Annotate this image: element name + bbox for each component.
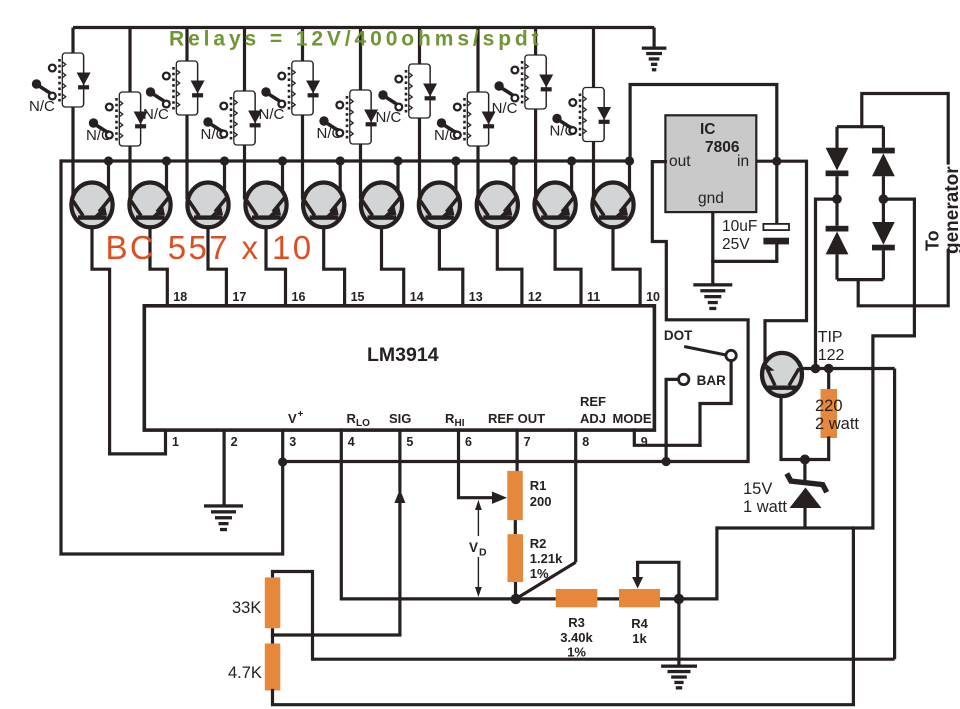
wire relay K1 coil bottom to Q1 collector bbox=[71, 106, 74, 200]
node Q4 emitter junction bbox=[278, 156, 287, 165]
wire D2 to bridge bottom bbox=[835, 254, 838, 279]
wire R4 out bbox=[660, 597, 679, 600]
node Q6 emitter junction bbox=[393, 156, 402, 165]
relay K1 switch lever bbox=[38, 85, 51, 93]
relay K5 coil body bbox=[292, 61, 313, 115]
relay K3 contact N/C bbox=[163, 101, 170, 108]
svg-text:200: 200 bbox=[530, 494, 552, 509]
svg-text:1: 1 bbox=[172, 435, 179, 449]
svg-text:10: 10 bbox=[646, 290, 660, 304]
svg-text:N/C: N/C bbox=[86, 127, 112, 144]
svg-text:4.7K: 4.7K bbox=[228, 664, 262, 682]
wire bridge left branch top bbox=[835, 127, 838, 149]
svg-text:V: V bbox=[288, 411, 297, 426]
wire TIP122 base bbox=[781, 396, 805, 460]
wire divider mid bbox=[271, 628, 274, 643]
svg-text:1%: 1% bbox=[567, 645, 586, 660]
relay K6 contact N/O bbox=[336, 102, 343, 109]
wire V+ rail horizontal bbox=[283, 460, 748, 463]
ground R4 bbox=[661, 665, 697, 668]
relay K4 coil body bbox=[234, 91, 255, 145]
svg-text:6: 6 bbox=[465, 435, 472, 449]
relay K5 switch lever bbox=[267, 93, 280, 101]
relay K7 contact N/C bbox=[395, 104, 402, 111]
svg-text:IC: IC bbox=[700, 121, 716, 138]
svg-text:REF OUT: REF OUT bbox=[488, 411, 545, 426]
wire relay K1 coil top bbox=[71, 28, 74, 56]
relay K9 switch lever bbox=[500, 87, 512, 95]
svg-text:12: 12 bbox=[528, 290, 542, 304]
diode relay K10 flyback bbox=[603, 90, 605, 140]
op-amp U1 LM3914 body bbox=[144, 306, 654, 430]
diode D1 bbox=[826, 148, 849, 171]
diode relay K1 flyback bbox=[83, 55, 85, 105]
wire Q7 emitter stub bbox=[454, 161, 457, 193]
svg-text:N/C: N/C bbox=[259, 106, 285, 123]
wire Q2 base to pin 17 bbox=[150, 227, 167, 307]
svg-text:TIP: TIP bbox=[818, 329, 843, 346]
resistor 4.7K bbox=[265, 644, 281, 691]
wire R 220 top bbox=[827, 369, 830, 391]
svg-text:3.40k: 3.40k bbox=[560, 630, 593, 645]
wire relay K8 coil bottom to Q8 collector bbox=[476, 145, 479, 200]
wire Q1 base to pin 1 bbox=[92, 227, 166, 454]
svg-text:10uF: 10uF bbox=[722, 218, 757, 235]
relay K8 switch lever bbox=[443, 124, 456, 132]
relay K6 coil body bbox=[350, 90, 371, 144]
wire relay K4 coil top bbox=[243, 28, 246, 94]
wire relay K5 coil top bbox=[301, 28, 304, 64]
arrow SIG input bbox=[394, 489, 405, 503]
diode relay K6 flyback bbox=[370, 92, 372, 142]
node 7806 in junction bbox=[772, 157, 781, 166]
wire R4 junction to ground bbox=[677, 599, 680, 666]
wire Q5 emitter stub bbox=[339, 161, 342, 193]
wire pin 4 RLO drop bbox=[341, 430, 516, 599]
wire relay K10 coil bottom to Q10 collector bbox=[592, 141, 595, 200]
relay K4 switch lever bbox=[209, 123, 222, 131]
relay K9 contact N/C bbox=[512, 95, 519, 102]
svg-text:N/C: N/C bbox=[376, 109, 402, 126]
resistor R4 pot bbox=[619, 589, 660, 607]
transistor Q1 BC557 bbox=[71, 183, 112, 228]
wire relay K10 coil top bbox=[592, 28, 595, 90]
wire Q9 base to pin 10 bbox=[555, 227, 581, 307]
transistor Q10 BC557 bbox=[592, 183, 633, 228]
relay K6 contact N/C bbox=[336, 130, 343, 137]
diode relay K3 flyback bbox=[197, 63, 199, 113]
node AC2 bbox=[879, 194, 889, 204]
svg-text:7806: 7806 bbox=[705, 139, 740, 156]
wire relay K9 coil top bbox=[534, 28, 537, 58]
svg-text:BAR: BAR bbox=[697, 373, 726, 388]
wire Q10 emitter stub bbox=[628, 161, 631, 193]
svg-text:out: out bbox=[669, 153, 691, 170]
svg-text:122: 122 bbox=[818, 347, 845, 364]
transistor Q8 BC557 bbox=[477, 183, 518, 228]
wire Q3 base to pin 16 bbox=[208, 227, 226, 307]
relay K10 switch pole bbox=[552, 114, 561, 123]
switch DOT contact bbox=[726, 350, 736, 360]
wire relay K3 coil top bbox=[185, 28, 188, 64]
node Q7 emitter junction bbox=[451, 156, 460, 165]
svg-text:17: 17 bbox=[232, 290, 246, 304]
relay K6 switch lever bbox=[325, 122, 338, 130]
svg-text:V: V bbox=[469, 540, 478, 555]
wire Q4 base to pin 15 bbox=[266, 227, 286, 307]
node Q9 emitter junction bbox=[567, 156, 576, 165]
svg-text:+: + bbox=[298, 409, 304, 420]
wire pin 6 RHI drop bbox=[459, 430, 495, 498]
wire capacitor to gnd bbox=[713, 244, 777, 261]
wire zener bottom bbox=[803, 508, 806, 528]
resistor R5 220 2W bbox=[821, 389, 838, 438]
svg-text:1k: 1k bbox=[632, 631, 647, 646]
svg-text:1%: 1% bbox=[530, 566, 549, 581]
wire zener net horizontal bbox=[717, 526, 873, 529]
svg-text:Relays = 12V/400ohms/spdt: Relays = 12V/400ohms/spdt bbox=[169, 28, 543, 51]
diode D3 bbox=[872, 148, 895, 154]
wire D1 to node AC1 bbox=[835, 176, 838, 226]
relay K1 contact N/O bbox=[49, 65, 56, 72]
svg-text:HI: HI bbox=[455, 418, 465, 429]
diode relay K8 flyback bbox=[488, 94, 490, 144]
wire emitter rail bbox=[61, 159, 630, 162]
wire TIP122 emitter riser bbox=[765, 161, 807, 362]
wire relay K6 coil bottom to Q6 collector bbox=[359, 143, 362, 200]
relay K1 coil body bbox=[62, 53, 83, 107]
wire BAR contact to V+ bbox=[666, 379, 678, 461]
svg-text:N/C: N/C bbox=[434, 127, 460, 144]
wire Q5 base to pin 14 bbox=[324, 227, 345, 307]
wire R4 junction right riser bbox=[679, 528, 717, 599]
relay K2 switch pole bbox=[89, 118, 98, 127]
svg-text:N/C: N/C bbox=[550, 123, 576, 140]
wire relay K3 coil bottom to Q3 collector bbox=[185, 114, 188, 200]
wire TIP122 collector line bbox=[801, 367, 895, 370]
wire relay K9 coil bottom to Q9 collector bbox=[534, 108, 537, 200]
relay K4 switch pole bbox=[203, 117, 212, 126]
wire in node to capacitor bbox=[775, 161, 778, 225]
transistor Q2 BC557 bbox=[129, 183, 170, 228]
wire bridge right branch top bbox=[882, 127, 885, 148]
wire Q6 emitter stub bbox=[396, 161, 399, 193]
svg-text:1 watt: 1 watt bbox=[743, 498, 787, 516]
wire relay K2 coil bottom to Q2 collector bbox=[128, 145, 131, 200]
ground 7806 bbox=[693, 283, 732, 286]
wire relay K6 coil top bbox=[359, 28, 362, 93]
wire pin 2 to ground bbox=[223, 430, 226, 506]
relay K7 coil body bbox=[409, 64, 430, 118]
svg-text:11: 11 bbox=[587, 290, 600, 304]
svg-text:SIG: SIG bbox=[389, 411, 411, 426]
wire pin 7 to R1 bbox=[515, 430, 518, 472]
svg-text:3: 3 bbox=[289, 435, 296, 449]
svg-text:18: 18 bbox=[173, 290, 187, 304]
wire AC2 down route bbox=[873, 199, 915, 528]
node AC1 bbox=[832, 194, 842, 204]
wire D4 to bridge bottom bbox=[882, 250, 885, 279]
wire rail to in riser bbox=[630, 85, 777, 162]
wire 7806 in bbox=[756, 160, 806, 163]
arrow RHI to R1 bbox=[492, 492, 507, 504]
wire zener top stub bbox=[803, 460, 806, 483]
wire Q3 emitter stub bbox=[223, 161, 226, 193]
wire DOT contact to pin 9 bbox=[700, 361, 731, 446]
svg-text:13: 13 bbox=[469, 290, 483, 304]
wire 33K top feed bbox=[273, 572, 313, 660]
svg-text:DOT: DOT bbox=[664, 328, 693, 343]
wire SIG feed riser bbox=[273, 503, 400, 635]
ground pin 2 bbox=[204, 504, 243, 507]
resistor R1 bbox=[507, 471, 523, 520]
svg-text:R: R bbox=[445, 411, 455, 426]
node TIP collector/R 220 junction bbox=[824, 364, 834, 374]
relay K7 contact N/O bbox=[395, 76, 402, 83]
node R4 output junction bbox=[674, 594, 684, 604]
wire top rail to ground bbox=[652, 28, 655, 48]
svg-text:LO: LO bbox=[356, 418, 370, 429]
wire R3 to R4 bbox=[597, 597, 619, 600]
node Q2 emitter junction bbox=[162, 156, 171, 165]
relay K10 coil body bbox=[583, 88, 604, 142]
wire Q10 base to pin 9 bbox=[613, 227, 640, 307]
diode D2 bbox=[826, 226, 849, 232]
transistor Q5 BC557 bbox=[303, 183, 344, 228]
svg-text:R3: R3 bbox=[568, 615, 585, 630]
wire sense line bbox=[313, 658, 895, 661]
wire AC1 to TIP collector bbox=[816, 199, 838, 368]
wire pin 5 SIG stub bbox=[398, 430, 401, 492]
relay K3 coil body bbox=[176, 61, 197, 115]
relay K7 switch lever bbox=[384, 96, 397, 104]
svg-text:15: 15 bbox=[351, 290, 365, 304]
wire relay K5 coil bottom to Q5 collector bbox=[301, 114, 304, 200]
wire Q6 base to pin 13 bbox=[382, 227, 404, 307]
svg-text:LM3914: LM3914 bbox=[367, 344, 439, 366]
relay K4 contact N/O bbox=[220, 103, 227, 110]
relay K2 contact N/O bbox=[106, 104, 113, 111]
resistor R2 bbox=[508, 534, 524, 582]
svg-text:7: 7 bbox=[524, 435, 531, 449]
svg-text:in: in bbox=[737, 153, 749, 170]
relay K3 switch lever bbox=[152, 93, 165, 101]
relay K7 switch pole bbox=[378, 90, 387, 99]
relay K9 contact N/O bbox=[512, 67, 519, 74]
svg-text:N/C: N/C bbox=[201, 126, 227, 143]
wire relay K7 coil bottom to Q7 collector bbox=[418, 117, 421, 200]
svg-text:R: R bbox=[347, 411, 357, 426]
svg-text:16: 16 bbox=[292, 290, 306, 304]
svg-text:R2: R2 bbox=[530, 536, 547, 551]
node Q1 emitter junction bbox=[104, 156, 113, 165]
relay K1 contact N/C bbox=[49, 93, 56, 100]
transistor Q4 BC557 bbox=[245, 183, 286, 228]
wire pin 8 REF ADJ drop bbox=[574, 430, 577, 562]
wire Q8 emitter stub bbox=[512, 161, 515, 193]
wire R1-R2 link bbox=[514, 520, 517, 534]
relay K5 switch pole bbox=[261, 87, 270, 96]
svg-text:N/C: N/C bbox=[143, 106, 169, 123]
wire collector line down bbox=[893, 369, 896, 660]
capacitor C1 10uF bbox=[763, 224, 789, 230]
wire R2 bottom bbox=[514, 582, 517, 599]
relay K10 contact N/O bbox=[569, 99, 576, 106]
svg-text:220: 220 bbox=[815, 397, 843, 415]
svg-text:ADJ: ADJ bbox=[580, 411, 606, 426]
wire Q1 emitter stub bbox=[107, 161, 110, 193]
wire R4 wiper loop bbox=[638, 562, 679, 595]
relay K8 contact N/C bbox=[454, 132, 461, 139]
wire Q2 emitter stub bbox=[165, 161, 168, 193]
wire 4.7K bottom route bbox=[273, 528, 854, 705]
node Q3 emitter junction bbox=[220, 156, 229, 165]
svg-text:D: D bbox=[479, 547, 487, 559]
relay K2 coil body bbox=[119, 92, 140, 146]
relay K8 contact N/O bbox=[454, 104, 461, 111]
transistor Q9 BC557 bbox=[535, 183, 576, 228]
wire bridge top bar bbox=[837, 125, 883, 128]
svg-text:1.21k: 1.21k bbox=[530, 551, 563, 566]
node V+ junction pin 3 bbox=[278, 457, 287, 466]
diode relay K5 flyback bbox=[312, 63, 314, 113]
wire pin 8 diagonal to R2 bottom bbox=[516, 562, 576, 599]
resistor R3 bbox=[556, 589, 598, 607]
svg-text:5: 5 bbox=[406, 435, 413, 449]
wire pin 9 MODE stub bbox=[634, 430, 700, 445]
relay K3 contact N/O bbox=[163, 73, 170, 80]
wire relay K7 coil top bbox=[418, 28, 421, 67]
svg-text:BC 557 x 10: BC 557 x 10 bbox=[106, 229, 314, 266]
svg-text:To: To bbox=[923, 230, 943, 251]
regulator IC 7806 body bbox=[665, 115, 756, 212]
node Q8 emitter junction bbox=[509, 156, 518, 165]
diode D5 zener 15V bbox=[787, 474, 827, 493]
svg-text:N/C: N/C bbox=[317, 125, 343, 142]
wire 7806 out route bbox=[652, 162, 748, 462]
diode relay K9 flyback bbox=[545, 57, 547, 107]
wire bridge bottom bar bbox=[837, 278, 883, 281]
svg-text:R4: R4 bbox=[631, 616, 648, 631]
relay K8 switch pole bbox=[437, 118, 446, 127]
wire RLO to R3 bbox=[516, 597, 556, 600]
wire pin 3 V+ stub bbox=[281, 430, 284, 466]
relay K8 coil body bbox=[467, 92, 488, 146]
wire Q4 emitter stub bbox=[281, 161, 284, 193]
svg-text:2: 2 bbox=[231, 435, 238, 449]
wire left V+ drop bbox=[61, 161, 283, 554]
relay K6 switch pole bbox=[319, 116, 328, 125]
wire bridge top to generator bbox=[862, 94, 948, 164]
relay K10 contact N/C bbox=[569, 127, 576, 134]
relay K9 switch pole bbox=[494, 81, 503, 90]
node BAR/V+ junction bbox=[662, 457, 671, 466]
svg-text:25V: 25V bbox=[722, 236, 750, 253]
wire Q9 emitter stub bbox=[570, 161, 573, 193]
node R2/RLO junction bbox=[511, 594, 521, 604]
relay K10 switch lever bbox=[558, 120, 571, 128]
transistor Q6 BC557 bbox=[361, 183, 402, 228]
transistor Q3 BC557 bbox=[187, 183, 228, 228]
transistor Q7 BC557 bbox=[419, 183, 460, 228]
relay K4 contact N/C bbox=[220, 131, 227, 138]
diode D4 bbox=[872, 222, 895, 245]
wire top ground rail bbox=[73, 26, 654, 29]
relay K5 contact N/O bbox=[278, 73, 285, 80]
switch DOT lever bbox=[684, 347, 726, 356]
svg-text:N/C: N/C bbox=[29, 98, 55, 115]
svg-text:MODE: MODE bbox=[613, 411, 652, 426]
wire relay K8 coil top bbox=[476, 28, 479, 95]
wire relay K2 coil top bbox=[128, 28, 131, 95]
node base/zener junction bbox=[800, 455, 810, 465]
svg-text:R1: R1 bbox=[530, 478, 547, 493]
svg-text:N/C: N/C bbox=[492, 100, 518, 117]
arrow R4 wiper bbox=[636, 562, 639, 583]
node Q10 emitter junction bbox=[625, 156, 634, 165]
switch BAR contact bbox=[679, 374, 689, 384]
svg-text:14: 14 bbox=[410, 290, 424, 304]
relay K3 switch pole bbox=[146, 87, 155, 96]
ground top-right bbox=[642, 47, 667, 50]
wire relay K4 coil bottom to Q4 collector bbox=[243, 144, 246, 200]
diode relay K4 flyback bbox=[254, 93, 256, 143]
wire Q8 base to pin 11 bbox=[497, 227, 522, 307]
wire D3 to node AC2 bbox=[882, 176, 885, 222]
relay K2 switch lever bbox=[95, 124, 108, 132]
diode relay K2 flyback bbox=[140, 94, 142, 144]
svg-text:REF: REF bbox=[580, 394, 606, 409]
dimension V_D arrow bbox=[477, 505, 479, 536]
node TIP collector/bridge junction bbox=[811, 364, 821, 374]
transistor Q11 TIP122 bbox=[762, 353, 802, 396]
resistor 33K bbox=[265, 577, 281, 628]
wire R 220 bottom bbox=[805, 438, 829, 460]
wire bridge bottom to generator bbox=[858, 251, 948, 306]
relay K2 contact N/C bbox=[106, 132, 113, 139]
relay K9 coil body bbox=[525, 55, 546, 109]
svg-text:8: 8 bbox=[582, 435, 589, 449]
node Q5 emitter junction bbox=[336, 156, 345, 165]
diode relay K7 flyback bbox=[429, 66, 431, 116]
svg-text:15V: 15V bbox=[743, 480, 772, 498]
svg-text:2 watt: 2 watt bbox=[815, 415, 859, 433]
relay K1 switch pole bbox=[32, 79, 41, 88]
svg-text:33K: 33K bbox=[232, 599, 261, 617]
wire Q7 base to pin 12 bbox=[439, 227, 462, 307]
wire 7806 gnd bbox=[711, 212, 714, 285]
svg-text:generator: generator bbox=[942, 166, 960, 254]
svg-text:gnd: gnd bbox=[698, 190, 724, 207]
svg-text:4: 4 bbox=[348, 435, 355, 449]
relay K5 contact N/C bbox=[278, 101, 285, 108]
